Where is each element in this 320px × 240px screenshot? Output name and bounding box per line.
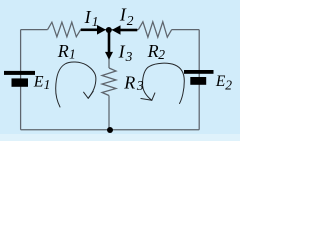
svg-text:E: E bbox=[33, 74, 44, 91]
svg-text:I: I bbox=[119, 5, 127, 25]
svg-text:2: 2 bbox=[158, 47, 165, 62]
svg-text:1: 1 bbox=[69, 47, 76, 62]
svg-text:R: R bbox=[123, 72, 135, 92]
svg-text:3: 3 bbox=[136, 78, 144, 93]
svg-text:I: I bbox=[118, 41, 126, 61]
svg-text:3: 3 bbox=[125, 49, 133, 64]
svg-text:I: I bbox=[84, 7, 92, 27]
svg-text:R: R bbox=[57, 41, 69, 61]
svg-text:1: 1 bbox=[44, 77, 51, 92]
svg-text:R: R bbox=[147, 41, 159, 61]
svg-text:2: 2 bbox=[127, 13, 134, 28]
svg-text:2: 2 bbox=[225, 78, 232, 93]
svg-text:1: 1 bbox=[92, 14, 99, 29]
svg-text:E: E bbox=[215, 73, 226, 90]
